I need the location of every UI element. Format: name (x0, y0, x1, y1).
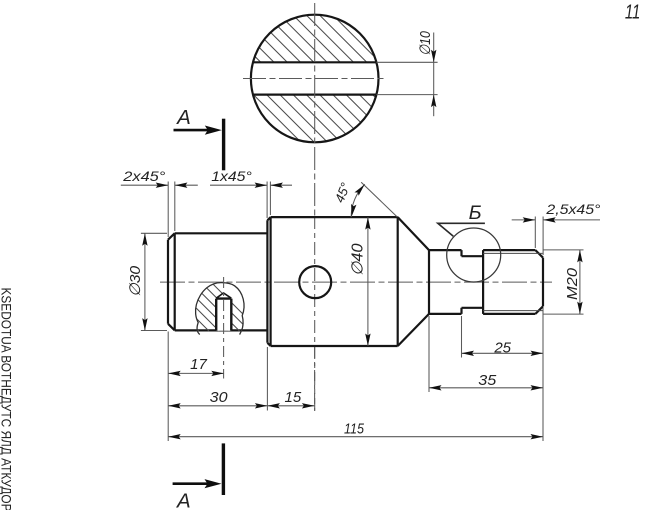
svg-text:35: 35 (478, 372, 497, 389)
svg-text:115: 115 (344, 420, 365, 437)
shaft outline left end face (167, 240, 169, 324)
spline break line (196, 283, 245, 335)
extension lines for dia10 (376, 61, 437, 63)
svg-text:Б: Б (469, 203, 482, 224)
chamfer 2x45 edges (168, 233, 175, 330)
horizontal centerline of section (243, 78, 387, 80)
dim 25 (462, 352, 544, 354)
section circle outline (251, 15, 379, 143)
main horizontal centerline (160, 281, 552, 283)
dim 1x45 extension lines (266, 182, 268, 219)
svg-text:∅10: ∅10 (417, 31, 434, 56)
dim dia40 line (367, 217, 369, 346)
dim 30 (168, 405, 267, 407)
svg-text:∅30: ∅30 (127, 265, 144, 297)
dim dia30 line (144, 233, 146, 330)
hole axis centerline (223, 277, 225, 379)
cone 45deg (398, 217, 429, 346)
dim 1x45 lines (210, 184, 267, 186)
svg-text:1x45°: 1x45° (211, 169, 252, 184)
svg-text:2x45°: 2x45° (122, 169, 166, 184)
threaded hole walls (216, 299, 231, 331)
cone start edge (397, 217, 399, 346)
groove walls (460, 250, 462, 314)
svg-text:11: 11 (625, 1, 641, 24)
groove bottom (462, 256, 484, 308)
dim 45deg cone: extension of cone edge (361, 182, 397, 216)
chamfer 1x45 edges (267, 217, 270, 346)
dim 45deg arc (351, 184, 365, 217)
white-out of threaded hole (216, 293, 231, 331)
bottom extension lines (167, 332, 169, 442)
thread OD (483, 250, 535, 314)
section plane bar bottom (222, 443, 225, 495)
dim 2.5x45 extension lines (534, 217, 536, 249)
dim 15 (267, 405, 314, 407)
hatch of broken-out section (150, 282, 260, 331)
svg-text:15: 15 (285, 389, 302, 406)
dia10 dimension line (433, 33, 435, 117)
svg-text:M20: M20 (564, 267, 581, 300)
dim 17 (168, 372, 224, 374)
chamfer 2.5x45 edges (535, 250, 543, 314)
svg-text:∅40: ∅40 (350, 243, 367, 276)
svg-text:2,5x45°: 2,5x45° (545, 202, 600, 218)
dim M20 extension lines (544, 249, 584, 251)
svg-text:30: 30 (210, 389, 228, 406)
dim 2.5x45 lines (512, 219, 536, 221)
hole slot lower edge (253, 93, 376, 95)
right end face (542, 258, 544, 307)
neck cylinder (429, 250, 462, 314)
svg-text:17: 17 (190, 356, 207, 373)
neck edge circle (428, 250, 430, 314)
dim dia30 extension lines (141, 232, 167, 234)
dim 115 (168, 436, 543, 438)
leader of detail B (438, 223, 485, 236)
detail circle B (447, 228, 501, 282)
vertical centerline through dia40 / cross hole (314, 216, 316, 411)
shoulder face dia30-dia40 (266, 220, 268, 342)
section arrow bottom (173, 482, 215, 485)
hole slot upper edge (253, 61, 376, 63)
vertical centerline of section (314, 3, 316, 216)
dia30 cylinder (175, 233, 268, 330)
svg-text:А: А (175, 490, 191, 510)
cross hole dia10 (299, 266, 331, 298)
dim M20 line (579, 250, 581, 314)
svg-text:KSEDOTUA ВОТНЕДУТС ЯЛД АТКУДОР: KSEDOTUA ВОТНЕДУТС ЯЛД АТКУДОР (0, 288, 14, 510)
dim 35 (429, 387, 543, 389)
section plane bar top (222, 119, 225, 171)
svg-text:25: 25 (493, 339, 511, 356)
dim 2x45 lines (121, 184, 168, 186)
drill point cone (216, 293, 231, 298)
svg-text:45°: 45° (332, 181, 353, 205)
hatch section A-A upper (118, 12, 475, 144)
thread minor diameter lines (483, 253, 542, 310)
dim 2x45 extension lines (167, 182, 169, 238)
hatch section A-A lower (118, 12, 475, 144)
section arrow top (174, 129, 216, 132)
thread start face (482, 250, 484, 314)
svg-text:А: А (175, 106, 191, 129)
dia40 cylinder (271, 217, 398, 346)
